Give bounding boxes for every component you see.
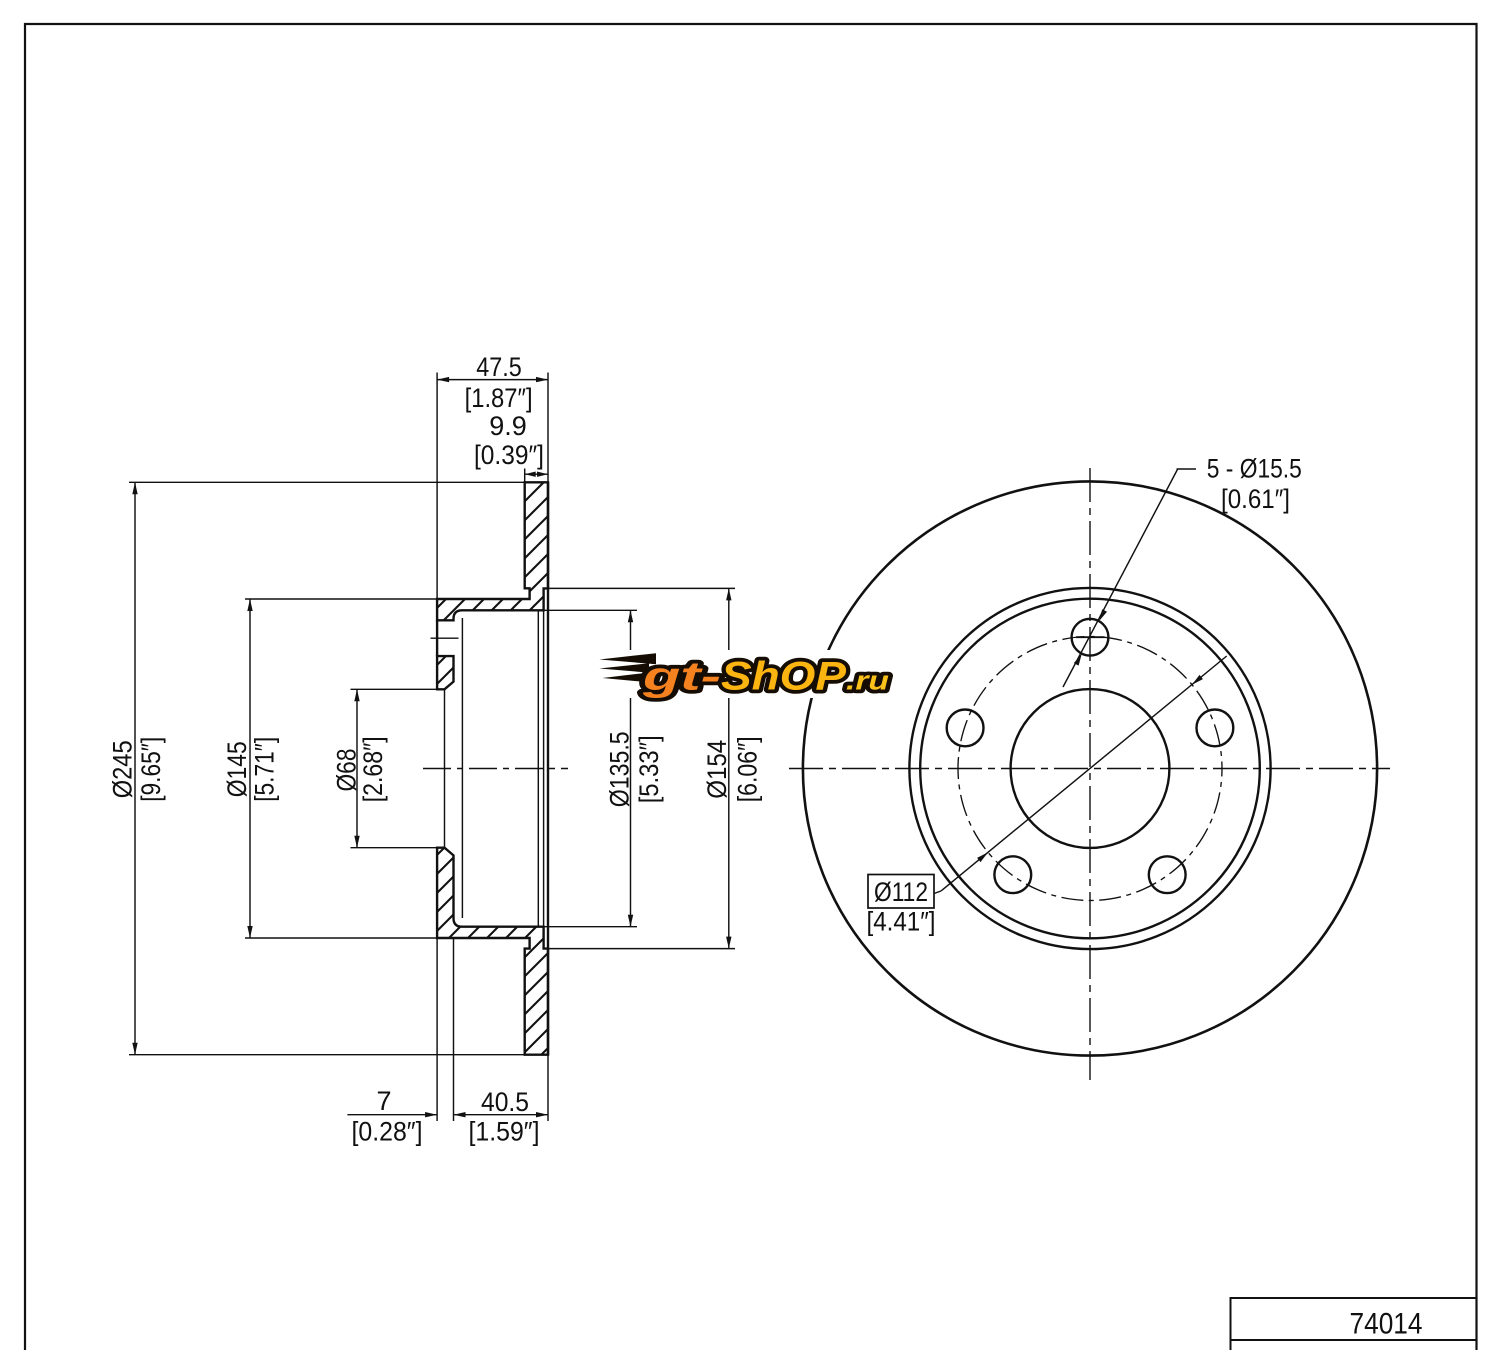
svg-text:Ø135.5: Ø135.5 [604,731,634,807]
svg-text:74014: 74014 [1350,1308,1423,1341]
svg-text:[9.65″]: [9.65″] [136,737,166,802]
svg-text:[6.06″]: [6.06″] [733,736,763,802]
svg-text:[1.87″]: [1.87″] [465,383,533,413]
svg-text:[0.39″]: [0.39″] [474,440,544,470]
svg-text:Ø145: Ø145 [222,741,252,797]
svg-text:7: 7 [376,1086,391,1116]
svg-text:[0.61″]: [0.61″] [1221,484,1290,514]
svg-text:40.5: 40.5 [481,1087,529,1117]
svg-text:Ø245: Ø245 [107,740,137,798]
svg-text:Ø112: Ø112 [874,877,928,907]
svg-text:[1.59″]: [1.59″] [469,1116,540,1146]
svg-text:[2.68″]: [2.68″] [358,736,388,802]
svg-text:[5.33″]: [5.33″] [634,735,664,803]
svg-text:Ø154: Ø154 [702,740,732,799]
svg-text:[4.41″]: [4.41″] [867,906,936,936]
svg-text:[5.71″]: [5.71″] [249,737,279,802]
svg-text:47.5: 47.5 [476,352,522,382]
svg-text:5 - Ø15.5: 5 - Ø15.5 [1207,453,1302,483]
svg-text:9.9: 9.9 [489,411,527,441]
svg-text:[0.28″]: [0.28″] [352,1116,423,1146]
